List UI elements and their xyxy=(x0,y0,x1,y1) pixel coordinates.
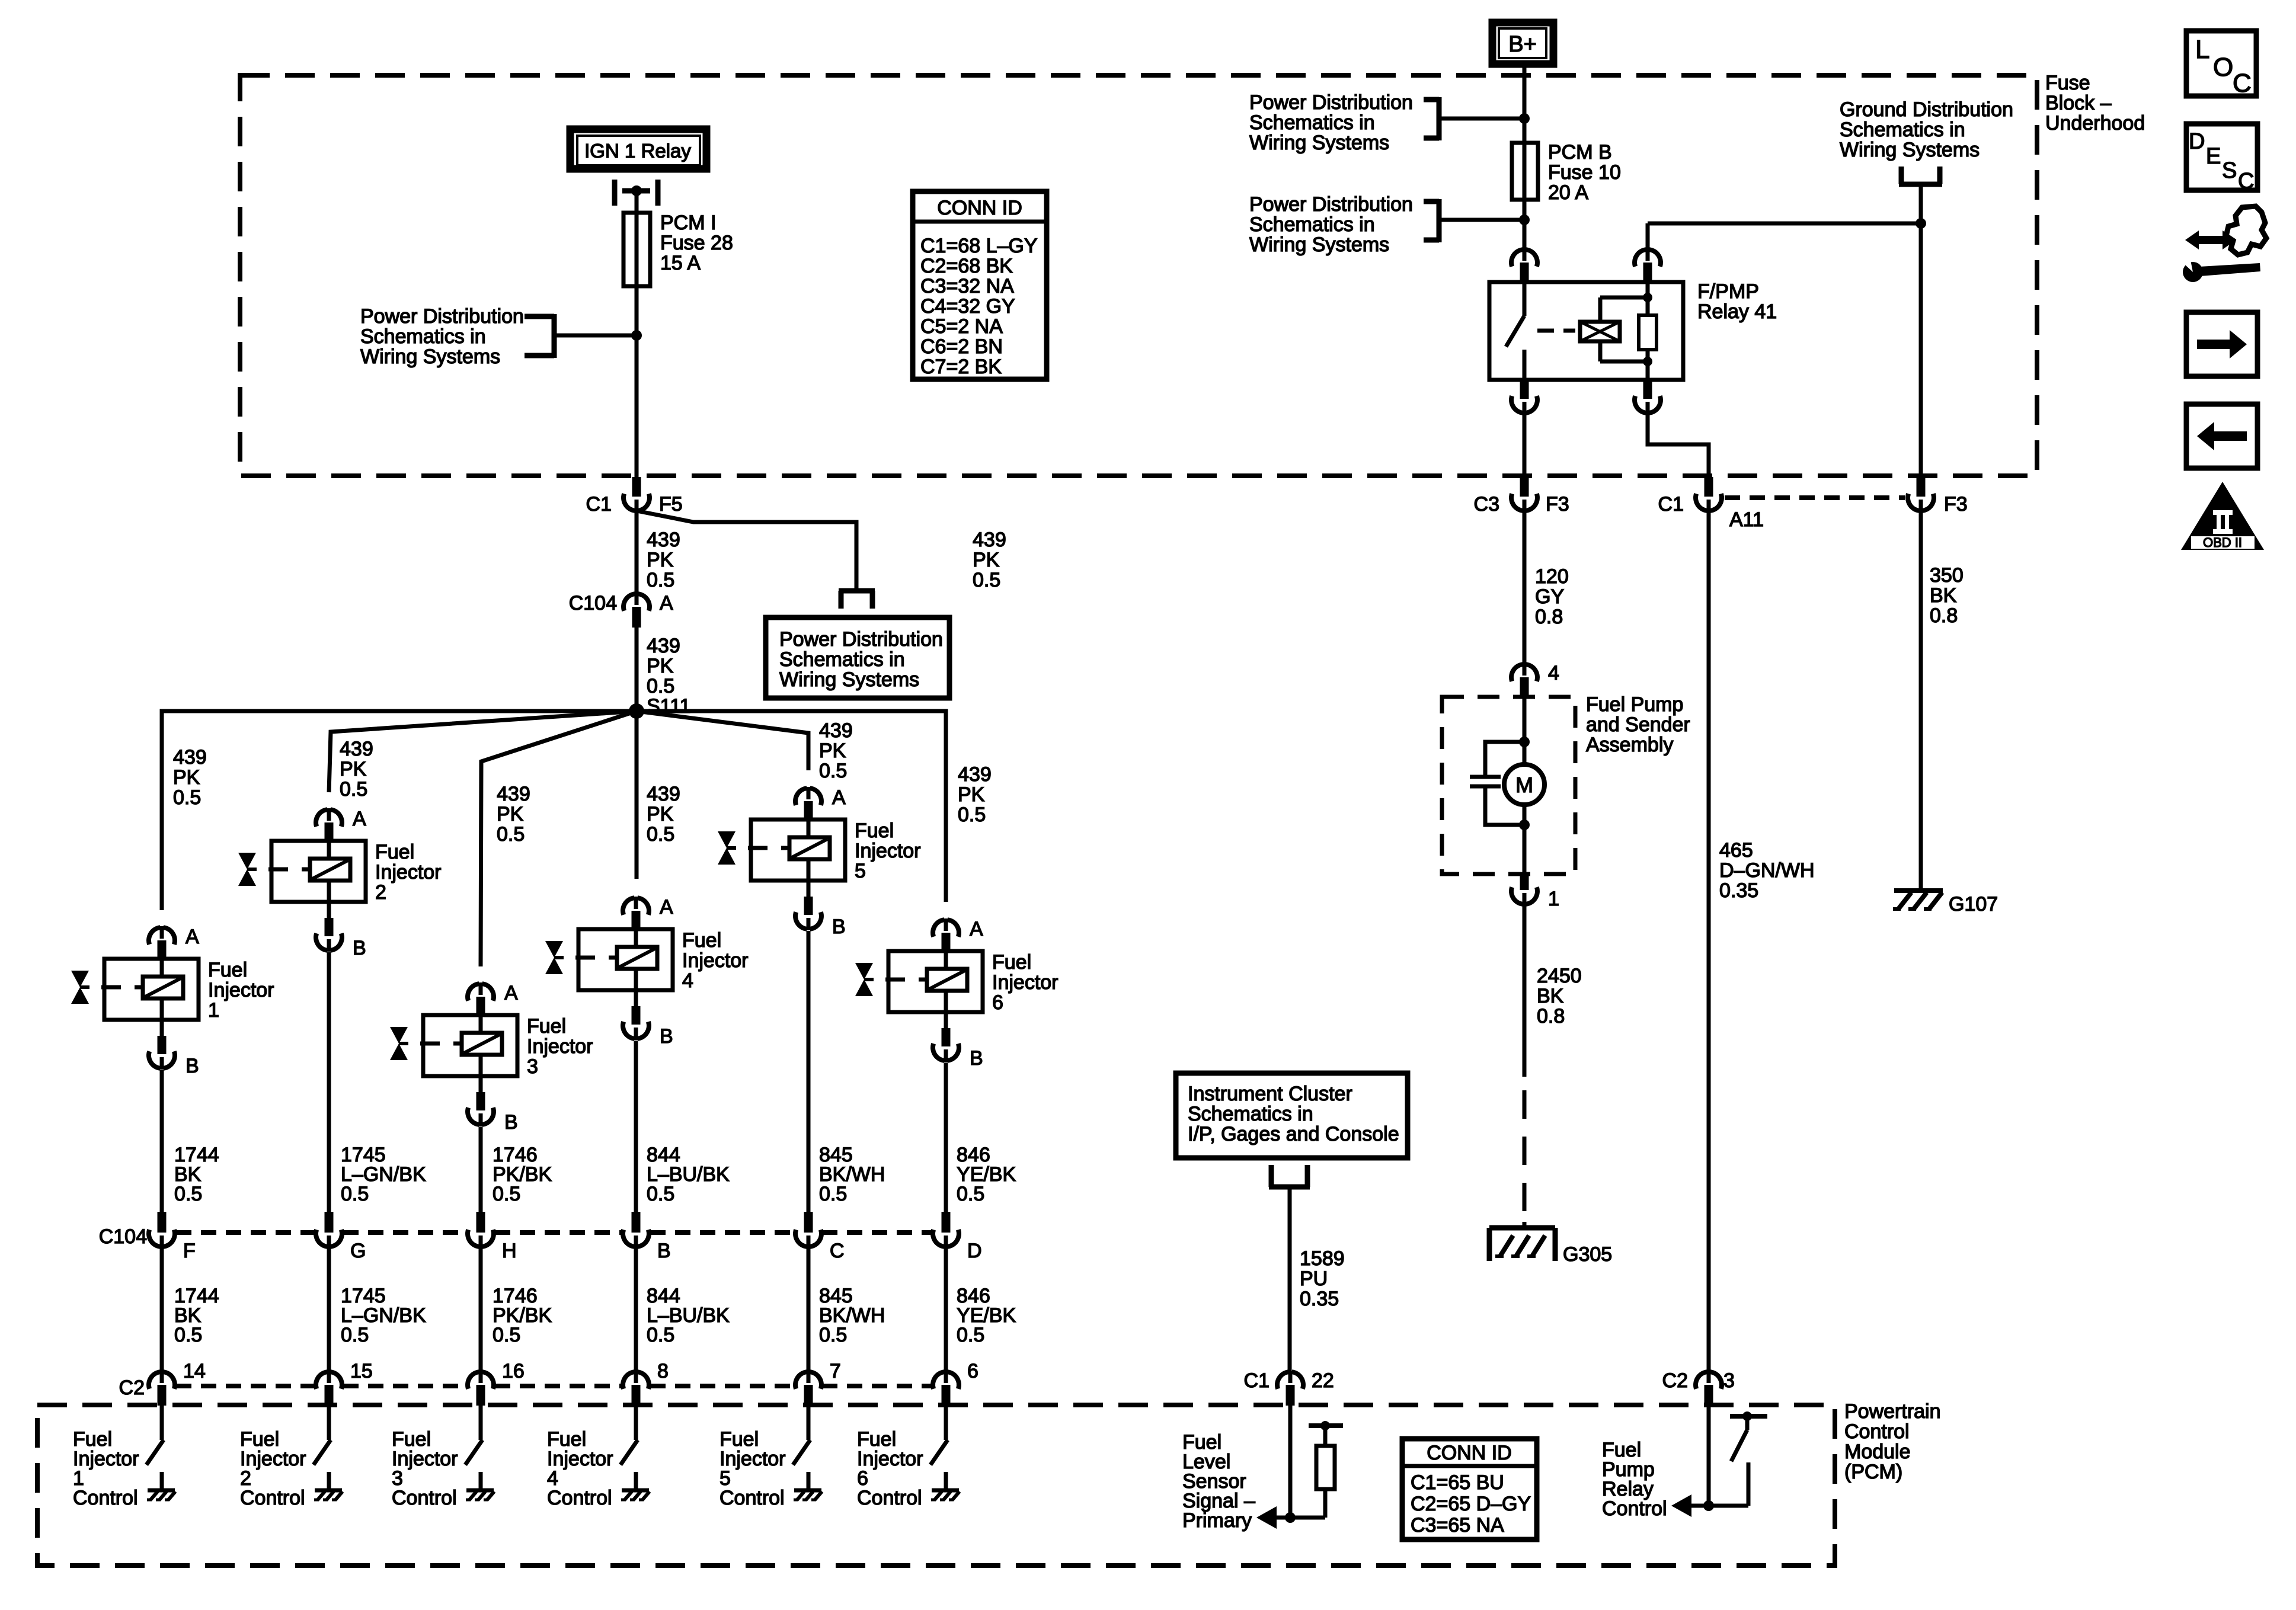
wire IGN relay to PCM I fuse xyxy=(635,194,639,215)
fuel injector 6 xyxy=(855,918,1059,1070)
svg-text:PCM B: PCM B xyxy=(1548,141,1612,164)
wire inj4 B to C104 B xyxy=(634,1041,638,1213)
svg-text:B: B xyxy=(657,1240,671,1262)
pump capacitor xyxy=(1470,742,1524,825)
svg-text:Schematics in: Schematics in xyxy=(1249,111,1375,134)
fuel pump relay control driver xyxy=(1703,1406,1767,1511)
icon service tool xyxy=(2179,206,2266,282)
icon LOC xyxy=(2186,31,2256,98)
svg-text:Wiring Systems: Wiring Systems xyxy=(779,668,919,691)
connector C104 pin G xyxy=(316,1212,366,1262)
wire A11 to C2/3 xyxy=(1707,510,1711,1372)
svg-text:1: 1 xyxy=(208,999,219,1022)
svg-text:439: 439 xyxy=(973,529,1006,551)
svg-text:7: 7 xyxy=(830,1360,841,1382)
svg-text:GY: GY xyxy=(1535,585,1564,608)
svg-text:0.8: 0.8 xyxy=(1537,1005,1565,1028)
connector C2 3 xyxy=(1662,1369,1735,1406)
svg-text:C1: C1 xyxy=(1658,493,1684,516)
svg-text:IGN 1 Relay: IGN 1 Relay xyxy=(584,140,691,162)
connector C1 A11 xyxy=(1658,477,1764,531)
label 1744 BK 0.5 upper xyxy=(174,1144,219,1205)
svg-text:C6=2 BN: C6=2 BN xyxy=(920,335,1003,358)
wire inj3 B to C104 H xyxy=(479,1126,483,1213)
svg-text:1589: 1589 xyxy=(1300,1247,1345,1270)
svg-text:C4=32 GY: C4=32 GY xyxy=(920,295,1015,318)
svg-text:6: 6 xyxy=(992,991,1003,1014)
fuel injector 6 control driver xyxy=(930,1406,960,1500)
fuel injector 3 control driver xyxy=(465,1406,494,1500)
pointer bracket Power Distribution (top right 2) xyxy=(1424,199,1524,242)
svg-text:C2: C2 xyxy=(1662,1369,1688,1392)
connector row line C2 xyxy=(176,1384,932,1388)
fuse block underhood dashed outline xyxy=(240,75,2037,476)
svg-text:B: B xyxy=(660,1025,673,1048)
svg-text:0.5: 0.5 xyxy=(819,1324,847,1346)
svg-text:PK: PK xyxy=(819,740,846,762)
fuel injector 5 control driver xyxy=(793,1406,822,1500)
fuel injector 3 xyxy=(390,982,593,1134)
svg-text:Schematics in: Schematics in xyxy=(360,325,486,348)
label Ground Distribution Schematics in Wiring Systems xyxy=(1840,98,2013,161)
svg-text:Wiring Systems: Wiring Systems xyxy=(1840,139,1980,161)
svg-text:PK: PK xyxy=(340,758,367,780)
svg-text:439: 439 xyxy=(340,738,373,760)
svg-text:Injector: Injector xyxy=(855,840,921,862)
ground G305 xyxy=(1489,1222,1555,1261)
connector C2 pin 16 xyxy=(468,1360,525,1406)
Fuel Pump and Sender Assembly dashed box xyxy=(1442,697,1575,874)
ground G107 xyxy=(1893,891,1943,909)
svg-text:0.5: 0.5 xyxy=(647,675,674,697)
relay pin 85 connector (bottom right) xyxy=(1635,380,1661,414)
relay resistor xyxy=(1639,282,1657,380)
svg-text:PK: PK xyxy=(497,803,524,825)
svg-text:L: L xyxy=(2195,35,2209,64)
wire pump internal bottom xyxy=(1519,805,1530,874)
svg-text:Control: Control xyxy=(1602,1497,1667,1520)
svg-text:2: 2 xyxy=(375,881,386,904)
label Fuel Injector 3 Control xyxy=(392,1428,458,1509)
svg-text:OBD II: OBD II xyxy=(2203,535,2242,550)
connector pump 1 xyxy=(1511,874,1559,910)
svg-text:C3=65 NA: C3=65 NA xyxy=(1411,1514,1504,1537)
svg-text:465: 465 xyxy=(1719,839,1753,862)
label G305 xyxy=(1563,1243,1612,1266)
svg-text:C2=65 D–GY: C2=65 D–GY xyxy=(1411,1493,1531,1515)
label Fuel Level Sensor Signal Primary xyxy=(1182,1431,1255,1532)
svg-text:Schematics in: Schematics in xyxy=(1840,119,1965,141)
label Powertrain Control Module (PCM) xyxy=(1844,1400,1941,1483)
connector C104 pin H xyxy=(468,1212,517,1262)
svg-text:Power Distribution: Power Distribution xyxy=(360,305,524,328)
svg-text:0.35: 0.35 xyxy=(1300,1288,1339,1310)
svg-text:0.5: 0.5 xyxy=(647,823,674,846)
svg-text:0.5: 0.5 xyxy=(497,823,525,846)
label C104 row xyxy=(99,1225,147,1248)
svg-text:F: F xyxy=(183,1240,196,1262)
svg-text:0.8: 0.8 xyxy=(1930,604,1958,627)
svg-text:Fuel: Fuel xyxy=(375,841,414,863)
svg-text:439: 439 xyxy=(497,783,530,805)
svg-text:B: B xyxy=(353,937,366,959)
relay coil xyxy=(1580,297,1648,361)
svg-text:439: 439 xyxy=(958,763,992,786)
svg-text:F5: F5 xyxy=(659,493,683,516)
svg-text:C1=68 L–GY: C1=68 L–GY xyxy=(920,235,1038,257)
fuel injector 5 xyxy=(718,786,921,938)
fuse PCM I Fuse 28 xyxy=(623,213,650,286)
svg-text:Fuse: Fuse xyxy=(2045,72,2090,94)
wire S111 to injector 4 xyxy=(635,711,639,879)
svg-text:C5=2 NA: C5=2 NA xyxy=(920,315,1003,338)
svg-text:C3: C3 xyxy=(1474,493,1499,516)
svg-text:C: C xyxy=(2238,169,2254,194)
label 439 PK 0.5 (below C1) xyxy=(647,529,680,591)
label 350 BK 0.8 xyxy=(1930,564,1964,627)
svg-text:439: 439 xyxy=(819,719,853,742)
svg-text:C: C xyxy=(830,1240,845,1262)
svg-text:0.8: 0.8 xyxy=(1535,606,1563,628)
svg-text:Power Distribution: Power Distribution xyxy=(779,628,943,651)
svg-text:Fuel: Fuel xyxy=(855,820,894,842)
fuel level sensor signal wire xyxy=(1285,1406,1296,1523)
svg-text:C104: C104 xyxy=(569,592,617,614)
svg-text:G: G xyxy=(350,1240,366,1262)
svg-text:PU: PU xyxy=(1300,1267,1328,1290)
svg-text:Control: Control xyxy=(1844,1420,1910,1443)
svg-text:I/P, Gages and Console: I/P, Gages and Console xyxy=(1188,1123,1399,1145)
svg-text:F3: F3 xyxy=(1944,493,1968,516)
CONN ID table (PCM) xyxy=(1402,1439,1537,1539)
svg-text:16: 16 xyxy=(502,1360,525,1382)
svg-text:0.5: 0.5 xyxy=(647,569,674,591)
svg-text:Wiring Systems: Wiring Systems xyxy=(1249,132,1389,154)
junction dot S (power distribution tap) xyxy=(631,330,642,341)
wire PCM I fuse to C1/F5 xyxy=(635,286,639,478)
svg-text:Injector: Injector xyxy=(682,949,749,972)
wire C104 C down xyxy=(807,1247,811,1372)
svg-text:0.5: 0.5 xyxy=(958,804,986,826)
svg-text:14: 14 xyxy=(183,1360,206,1382)
wire inj5 B to C104 C xyxy=(807,931,811,1213)
connector C104 A xyxy=(569,592,673,628)
fuel pump motor M xyxy=(1504,764,1544,805)
Powertrain Control Module dashed outline xyxy=(37,1405,1835,1566)
svg-text:B: B xyxy=(186,1055,199,1077)
svg-text:0.5: 0.5 xyxy=(341,1183,369,1205)
svg-text:Ground Distribution: Ground Distribution xyxy=(1840,98,2013,121)
svg-text:0.5: 0.5 xyxy=(493,1183,520,1205)
CONN ID table (fuse block) xyxy=(913,191,1047,379)
svg-text:C1=65 BU: C1=65 BU xyxy=(1411,1471,1504,1494)
IGN 1 Relay box xyxy=(570,129,706,169)
svg-text:20 A: 20 A xyxy=(1548,181,1588,204)
svg-text:F/PMP: F/PMP xyxy=(1697,280,1759,303)
label Fuel Pump Relay Control xyxy=(1602,1439,1667,1520)
svg-text:3: 3 xyxy=(527,1055,538,1078)
svg-text:Control: Control xyxy=(392,1487,457,1509)
connector C3 F3 (pump feed) xyxy=(1474,477,1569,516)
svg-text:5: 5 xyxy=(855,860,866,882)
svg-text:G107: G107 xyxy=(1949,893,1998,916)
icon DESC xyxy=(2186,124,2257,194)
connector C2 pin 14 xyxy=(149,1360,206,1406)
pointer bracket Power Distribution (top right 1) xyxy=(1424,97,1524,140)
label 120 GY 0.8 xyxy=(1535,565,1569,628)
svg-text:4: 4 xyxy=(682,969,693,992)
svg-text:G305: G305 xyxy=(1563,1243,1612,1266)
fuel injector 4 xyxy=(545,896,749,1048)
wire C104 G down xyxy=(327,1247,331,1372)
wire pump dashed section xyxy=(1523,1090,1527,1222)
label PCM B Fuse 10 20 A xyxy=(1548,141,1621,204)
connector C2 pin 7 xyxy=(795,1360,841,1406)
svg-text:0.5: 0.5 xyxy=(173,786,201,809)
connector C104 pin F xyxy=(149,1212,196,1262)
svg-text:A11: A11 xyxy=(1729,508,1764,531)
label 439 PK 0.5 (branch) xyxy=(973,529,1006,591)
svg-text:C1: C1 xyxy=(1244,1369,1269,1392)
wire 439 PK branch to power distribution xyxy=(637,511,856,591)
svg-text:M: M xyxy=(1515,773,1533,797)
wire pump 1 down xyxy=(1523,904,1527,1077)
label Power Distribution Schematics in Wiring Systems (top right 2) xyxy=(1249,193,1413,256)
svg-text:Injector: Injector xyxy=(375,861,442,884)
svg-text:Schematics in: Schematics in xyxy=(779,648,905,671)
svg-text:PK: PK xyxy=(973,549,1000,571)
svg-text:CONN ID: CONN ID xyxy=(1427,1442,1512,1464)
svg-text:0.5: 0.5 xyxy=(340,778,367,801)
connector C104 pin B xyxy=(623,1212,671,1262)
svg-text:BK: BK xyxy=(1537,985,1564,1007)
fuel pump relay control arrow xyxy=(1671,1494,1709,1517)
svg-text:O: O xyxy=(2213,53,2233,82)
F/PMP Relay 41 box xyxy=(1489,282,1683,380)
svg-text:Schematics in: Schematics in xyxy=(1188,1103,1313,1125)
wire S111 to injector 6 xyxy=(637,711,946,902)
relay pin 86 connector (top right) xyxy=(1635,248,1661,283)
label 439 PK 0.5 S111 xyxy=(647,635,690,718)
svg-text:Fuel Pump: Fuel Pump xyxy=(1586,693,1683,716)
connector C1 22 xyxy=(1244,1369,1334,1406)
label 1745 L-GN/BK 0.5 lower xyxy=(341,1285,426,1346)
wire S111 to injector 1 xyxy=(162,711,637,910)
svg-text:0.5: 0.5 xyxy=(493,1324,520,1346)
connector row line C104 xyxy=(176,1230,932,1235)
fuel injector 4 control driver xyxy=(621,1406,650,1500)
svg-text:H: H xyxy=(502,1240,517,1262)
wire relay 87 down to C3/F3 xyxy=(1523,413,1527,478)
icon arrow right xyxy=(2186,312,2257,376)
svg-text:B+: B+ xyxy=(1508,32,1537,57)
svg-text:439: 439 xyxy=(647,635,680,657)
label 1746 PK/BK 0.5 lower xyxy=(493,1285,552,1346)
svg-text:PK: PK xyxy=(647,549,674,571)
label 439 PK 0.5 (inj6) xyxy=(958,763,992,826)
label 439 PK 0.5 (inj1) xyxy=(173,746,207,809)
Instrument Cluster reference box xyxy=(1176,1073,1408,1158)
svg-text:Wiring Systems: Wiring Systems xyxy=(1249,233,1389,256)
svg-text:0.5: 0.5 xyxy=(957,1324,984,1346)
svg-text:Fuse 28: Fuse 28 xyxy=(660,232,733,254)
svg-text:Block –: Block – xyxy=(2045,92,2112,114)
svg-text:Wiring Systems: Wiring Systems xyxy=(360,345,500,368)
connector row line A11-F3 xyxy=(1725,495,1905,500)
wire F3 down to G107 xyxy=(1919,510,1923,891)
label 439 PK 0.5 (inj3) xyxy=(497,783,530,846)
label Fuel Injector 2 Control xyxy=(240,1428,306,1509)
wire S111 to injector 3 xyxy=(481,711,637,966)
svg-text:(PCM): (PCM) xyxy=(1844,1461,1902,1483)
svg-text:and Sender: and Sender xyxy=(1586,713,1690,736)
svg-text:D: D xyxy=(2189,129,2205,154)
junction dot B+ tap 1 xyxy=(1519,113,1530,124)
wire 439 PK C104 to S111 xyxy=(635,628,639,711)
fuel injector 1 xyxy=(71,926,274,1077)
svg-text:120: 120 xyxy=(1535,565,1569,588)
svg-text:1: 1 xyxy=(1548,888,1559,910)
svg-text:0.5: 0.5 xyxy=(341,1324,369,1346)
wire inj6 B to C104 D xyxy=(944,1062,948,1213)
connector pump 4 xyxy=(1511,662,1559,698)
label Fuel Pump and Sender Assembly xyxy=(1586,693,1690,756)
svg-text:BK: BK xyxy=(1930,584,1957,607)
svg-text:A: A xyxy=(353,808,366,830)
label 845 BK/WH 0.5 lower xyxy=(819,1285,885,1346)
fuse PCM B Fuse 10 xyxy=(1512,143,1538,200)
svg-text:4: 4 xyxy=(1548,662,1559,684)
svg-text:Fuel: Fuel xyxy=(208,959,247,981)
svg-text:PK: PK xyxy=(647,803,674,825)
label 439 PK 0.5 (inj4) xyxy=(647,783,680,846)
wire B+ down xyxy=(1523,64,1527,249)
svg-text:Control: Control xyxy=(240,1487,305,1509)
label Fuel Injector 6 Control xyxy=(857,1428,923,1509)
svg-text:C7=2 BK: C7=2 BK xyxy=(920,356,1002,378)
svg-text:15 A: 15 A xyxy=(660,252,701,274)
svg-text:A: A xyxy=(832,786,846,809)
svg-text:F3: F3 xyxy=(1546,493,1569,516)
svg-text:439: 439 xyxy=(173,746,207,769)
svg-text:C: C xyxy=(2233,69,2252,98)
svg-text:22: 22 xyxy=(1312,1369,1334,1392)
svg-text:0.35: 0.35 xyxy=(1719,879,1758,902)
svg-text:PCM I: PCM I xyxy=(660,212,716,234)
label F/PMP Relay 41 xyxy=(1697,280,1777,323)
fuel injector 2 xyxy=(238,808,442,959)
wire S111 to injector 2 xyxy=(329,711,637,792)
svg-text:C2: C2 xyxy=(119,1377,145,1399)
svg-text:Power Distribution: Power Distribution xyxy=(1249,91,1413,114)
Power Distribution reference box xyxy=(766,617,949,698)
svg-text:Assembly: Assembly xyxy=(1586,734,1673,756)
connector C104 pin D xyxy=(933,1212,982,1262)
svg-text:0.5: 0.5 xyxy=(174,1324,202,1346)
svg-text:0.5: 0.5 xyxy=(647,1324,674,1346)
svg-text:8: 8 xyxy=(657,1360,669,1382)
label G107 xyxy=(1949,893,1998,916)
connector C1 F5 xyxy=(586,477,683,516)
junction dot ground distribution xyxy=(1916,218,1926,229)
label 846 YE/BK 0.5 upper xyxy=(957,1144,1016,1205)
label 845 BK/WH 0.5 upper xyxy=(819,1144,885,1205)
svg-text:Underhood: Underhood xyxy=(2045,112,2145,135)
svg-text:Control: Control xyxy=(857,1487,922,1509)
label 844 L-BU/BK 0.5 upper xyxy=(647,1144,730,1205)
fuel level sender resistor xyxy=(1290,1421,1343,1518)
label 1745 L-GN/BK 0.5 upper xyxy=(341,1144,426,1205)
label Fuel Injector 1 Control xyxy=(73,1428,139,1509)
label 465 D-GN/WH 0.35 xyxy=(1719,839,1815,902)
svg-text:6: 6 xyxy=(967,1360,978,1382)
junction dot B+ tap 2 xyxy=(1519,215,1530,225)
label Fuel Injector 4 Control xyxy=(547,1428,613,1509)
svg-text:C2=68 BK: C2=68 BK xyxy=(920,255,1013,277)
label C2 row xyxy=(119,1377,145,1399)
label Power Distribution Schematics in Wiring Systems (top right 1) xyxy=(1249,91,1413,154)
wire C104 D down xyxy=(944,1247,948,1372)
fork Ground Distribution xyxy=(1899,167,1942,223)
fork power distribution branch xyxy=(839,591,875,609)
svg-text:Module: Module xyxy=(1844,1441,1911,1463)
svg-text:Schematics in: Schematics in xyxy=(1249,213,1375,236)
relay pin 87 connector (bottom left) xyxy=(1511,380,1537,414)
IGN 1 Relay pin bracket xyxy=(615,180,658,206)
fuel level sensor arrow xyxy=(1256,1506,1290,1529)
connector F3 (ground) xyxy=(1908,477,1968,516)
svg-text:S: S xyxy=(2222,158,2237,183)
svg-text:Powertrain: Powertrain xyxy=(1844,1400,1941,1423)
label 439 PK 0.5 (inj5) xyxy=(819,719,853,782)
svg-text:Injector: Injector xyxy=(208,979,274,1001)
svg-text:PK: PK xyxy=(173,766,200,789)
svg-text:B: B xyxy=(970,1047,983,1070)
svg-text:D: D xyxy=(967,1240,982,1262)
splice S111 xyxy=(629,703,644,719)
icon OBD II triangle xyxy=(2181,482,2264,550)
connector C104 pin C xyxy=(795,1212,845,1262)
svg-text:Control: Control xyxy=(547,1487,612,1509)
label Fuel Injector 5 Control xyxy=(720,1428,786,1509)
label 844 L-BU/BK 0.5 lower xyxy=(647,1285,730,1346)
svg-text:D–GN/WH: D–GN/WH xyxy=(1719,859,1815,882)
wire C104 B down xyxy=(634,1247,638,1372)
svg-text:0.5: 0.5 xyxy=(957,1183,984,1205)
wire S111 to injector 5 xyxy=(637,711,808,770)
svg-text:15: 15 xyxy=(350,1360,373,1382)
wire inj2 B to C104 G xyxy=(327,952,331,1213)
label 1589 PU 0.35 xyxy=(1300,1247,1345,1310)
svg-text:3: 3 xyxy=(1723,1369,1735,1392)
svg-text:439: 439 xyxy=(647,529,680,551)
label PCM I Fuse 28 15 A xyxy=(660,212,733,274)
svg-text:Control: Control xyxy=(73,1487,138,1509)
svg-text:2450: 2450 xyxy=(1537,965,1582,987)
svg-text:Primary: Primary xyxy=(1182,1509,1252,1532)
wire C104 H down xyxy=(479,1247,483,1372)
svg-text:A: A xyxy=(660,592,673,614)
svg-text:Relay 41: Relay 41 xyxy=(1697,300,1777,323)
svg-text:B: B xyxy=(832,916,846,938)
pointer bracket Power Distribution (left) xyxy=(525,314,637,358)
label 1746 PK/BK 0.5 upper xyxy=(493,1144,552,1205)
wire relay to ground distribution xyxy=(1648,223,1921,249)
wire 439 PK C1 to C104 xyxy=(635,510,639,593)
svg-text:PK: PK xyxy=(647,655,674,677)
fuel injector 1 control driver xyxy=(146,1406,175,1500)
svg-text:Fuel: Fuel xyxy=(527,1015,566,1038)
